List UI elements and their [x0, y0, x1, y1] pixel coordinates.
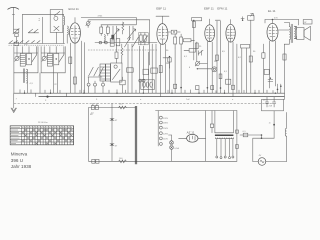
svg-text:AZ 11: AZ 11	[187, 131, 195, 135]
node mech link	[88, 49, 157, 51]
resistor R15	[195, 42, 198, 52]
capacitor C12	[241, 17, 244, 21]
svg-text:1M: 1M	[214, 61, 217, 63]
resistor R24 box	[189, 49, 195, 53]
svg-text:2F 06 f/vn: 2F 06 f/vn	[38, 122, 49, 124]
capacitor CV2 tuning	[127, 26, 135, 40]
speaker LS	[294, 26, 310, 40]
fuse F2	[169, 135, 180, 161]
capacitor C18 pair bottom	[92, 159, 99, 163]
node chassis plate	[135, 106, 136, 164]
svg-text:EBF 11: EBF 11	[156, 7, 166, 11]
switch S3 bandswitch arrows	[88, 67, 103, 77]
wire V3 V4 link cols	[216, 21, 222, 93]
IF can T1	[139, 33, 149, 45]
wire detector links	[197, 52, 212, 69]
switch S4 tone	[248, 13, 254, 44]
wire mid vertical	[111, 108, 113, 162]
svg-text:396 U: 396 U	[11, 158, 23, 163]
wire right column	[236, 111, 239, 162]
capacitor C19	[110, 119, 118, 123]
capacitor C20	[110, 144, 118, 148]
antenna	[8, 7, 20, 29]
wire filter stubs	[17, 47, 64, 57]
wire V2 anode col	[165, 44, 167, 93]
capacitor C7	[143, 69, 149, 74]
svg-text:EBF 11: EBF 11	[204, 6, 214, 10]
resistor R4	[100, 25, 103, 36]
capacitor C5	[116, 39, 120, 46]
filter block A	[14, 47, 38, 73]
svg-text:125V: 125V	[163, 133, 169, 135]
wire IF columns	[128, 44, 156, 93]
svg-text:EFM 11: EFM 11	[217, 6, 228, 10]
coil L8 dial lamp	[285, 112, 286, 161]
resistor R14 box	[192, 18, 202, 21]
resistor R11	[174, 34, 177, 48]
tube V6 AZ11 rectifier	[179, 131, 206, 143]
wire speaker return	[284, 44, 286, 93]
capacitor C17 pair	[91, 106, 99, 115]
wire V5 cols	[270, 30, 290, 88]
svg-text:2M: 2M	[166, 63, 169, 65]
svg-text:ECH 11: ECH 11	[69, 7, 80, 11]
resistor R1	[14, 42, 28, 46]
node bus row parts	[174, 84, 235, 89]
capacitor C8 pair	[151, 68, 158, 73]
node voltage selector	[158, 111, 168, 146]
tube V5 EL11	[267, 9, 278, 41]
coil L7	[183, 39, 194, 42]
node bus labels	[96, 99, 266, 102]
fuse F1	[170, 135, 174, 145]
wire input top	[22, 14, 63, 43]
resistor R23	[119, 158, 127, 163]
capacitor C13	[264, 69, 269, 74]
wire rect anode	[205, 111, 207, 162]
tube V2 EBF11	[156, 7, 169, 45]
node table caption	[38, 122, 49, 124]
resistor R25	[249, 44, 252, 93]
tube V3 EBF11 det	[204, 6, 220, 41]
svg-text:EL 11: EL 11	[268, 9, 276, 13]
capacitor C21	[210, 111, 213, 133]
resistor R6	[122, 22, 124, 34]
svg-text:185V: 185V	[163, 123, 169, 125]
svg-text:150V: 150V	[163, 128, 169, 130]
table x marks	[22, 129, 73, 144]
resistor R19 label box	[303, 20, 312, 24]
capacitor CV1 tuning	[111, 26, 119, 40]
coil L3 oscillator	[23, 69, 33, 85]
capacitor C22	[243, 131, 248, 137]
wire bus2	[39, 96, 285, 102]
resistor R5	[106, 25, 109, 36]
resistor R8	[121, 44, 123, 63]
resistor R22	[119, 104, 127, 109]
transformer T2 output	[284, 22, 295, 44]
coil L4	[104, 35, 105, 43]
wire AVC vertical	[149, 20, 151, 65]
resistor R9	[127, 68, 134, 72]
transformer T3 power	[215, 111, 234, 139]
node pin dots	[277, 84, 282, 93]
capacitor C9	[168, 30, 180, 34]
svg-text:0,1A: 0,1A	[174, 147, 179, 150]
wire V4 cols	[228, 42, 237, 93]
svg-text:Jahr 1938: Jahr 1938	[11, 164, 32, 169]
wire heater vert	[269, 111, 275, 138]
node detector cluster	[195, 61, 200, 69]
capacitor antenna trimmer	[13, 28, 19, 43]
resistor R20	[262, 44, 265, 93]
wire heater pair	[240, 134, 274, 139]
antenna input unit box	[50, 10, 63, 44]
wire V1 pin cols	[82, 41, 85, 93]
capacitor trimmer C2	[86, 20, 91, 28]
switch contacts S1	[28, 29, 38, 33]
wire AVC line A	[81, 15, 136, 24]
tube V4 EFM11	[217, 6, 235, 42]
resistor R17	[226, 79, 231, 84]
resistor R12	[180, 34, 183, 48]
table border	[10, 126, 73, 145]
wire screen line	[39, 17, 43, 43]
resistor R16	[168, 56, 171, 68]
capacitor C6 pair	[139, 79, 145, 82]
coil L2	[64, 26, 69, 43]
resistor R13	[192, 20, 195, 60]
switch contact row	[9, 41, 65, 44]
wire line B	[89, 19, 150, 21]
wire mains top	[156, 110, 237, 112]
svg-text:110V: 110V	[163, 139, 168, 141]
table header strokes	[11, 127, 72, 143]
wire junction row	[95, 41, 157, 44]
capacitor C4	[110, 39, 114, 47]
wire gang top	[101, 24, 136, 26]
resistor R2 cathode	[69, 43, 72, 93]
coil L1 antenna	[64, 14, 65, 28]
filter block B	[41, 47, 65, 73]
oscillator unit box	[111, 63, 122, 82]
wire R11 R12 cols	[170, 48, 182, 93]
svg-text:220V: 220V	[163, 118, 169, 120]
node pin circles row	[87, 77, 104, 93]
table tube chart	[10, 126, 73, 145]
coil pack L5	[100, 64, 105, 81]
capacitor C15 triple	[141, 80, 155, 90]
resistor R7	[115, 44, 118, 63]
capacitor C16 electrolytic block	[262, 97, 284, 111]
svg-text:Minerva: Minerva	[11, 152, 28, 157]
node B2 label	[90, 114, 93, 116]
resistor R21	[120, 77, 125, 93]
wire bus end hook	[284, 93, 285, 99]
capacitor C14	[268, 78, 273, 82]
capacitor C10 trimmer	[198, 50, 203, 55]
power box left	[89, 108, 237, 162]
capacitor C3 dark	[111, 35, 114, 40]
resistor R26	[283, 54, 286, 60]
tube V1 ECH11	[69, 7, 81, 43]
node bus links	[36, 93, 233, 96]
node bandswitch dash	[9, 44, 65, 46]
lamp LA1 dial	[253, 138, 287, 165]
wire bus1	[14, 93, 285, 100]
resistor R10	[159, 44, 162, 93]
switch S2 arrows	[125, 37, 139, 47]
wire chassis stubs	[93, 103, 112, 107]
resistor R3	[74, 43, 77, 93]
resistor R18	[241, 44, 250, 93]
wire misc links	[163, 50, 189, 68]
wire filter bottoms	[14, 65, 76, 93]
wire V3 cols	[207, 42, 212, 94]
ground GND1	[11, 93, 17, 112]
coil pack L6	[106, 64, 111, 81]
node title text	[11, 152, 32, 169]
node transformer taps	[216, 139, 234, 159]
wire chassis dashed	[14, 102, 272, 104]
capacitor C11 eye	[212, 67, 217, 72]
wire output B+	[265, 17, 299, 25]
node bus stubs row	[20, 90, 276, 94]
node value labels	[166, 46, 256, 73]
